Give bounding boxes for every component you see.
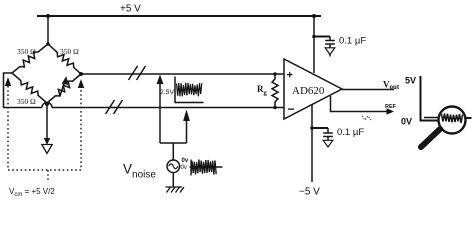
source noise waveform (190, 166, 223, 168)
svg-text:0v: 0v (182, 158, 189, 164)
magnifier handle (421, 129, 440, 147)
svg-text:+5 V: +5 V (120, 4, 141, 15)
-5V supply wire from op-amp (311, 105, 313, 183)
stem from bridge bottom vertex (46, 104, 48, 140)
wire from left vertex down and right (- output) (4, 73, 43, 108)
svg-text:0.1 µF: 0.1 µF (339, 36, 366, 47)
upper signal wire from right vertex to amplifier + input (81, 73, 284, 75)
wire hop over centre stem (42, 103, 52, 108)
svg-text:350 Ω: 350 Ω (17, 47, 36, 56)
Vcm common open triangle (42, 145, 52, 154)
node Rg top (273, 72, 277, 76)
output wire (342, 89, 394, 91)
resistor R1 350 ohm (top-left bridge arm) (12, 44, 48, 73)
ground for C2 (323, 140, 333, 147)
svg-text:AD620: AD620 (292, 85, 325, 97)
svg-text:−5 V: −5 V (299, 187, 320, 198)
svg-text:REF: REF (385, 104, 397, 110)
+5V supply wire into op-amp (313, 16, 315, 73)
small dotted scribble near REF (362, 116, 371, 120)
dashed enclosure bottom edge (8, 169, 81, 171)
svg-text:+: + (287, 70, 293, 82)
resistor R3 350 ohm (bottom-left bridge arm) (12, 73, 47, 103)
gain resistor Rg (272, 76, 278, 105)
capacitor C1 0.1uF (325, 37, 335, 48)
junction to bottom bypass cap (310, 126, 314, 130)
2.5V noise graph axes (175, 77, 204, 103)
dashed sense arrow right (78, 79, 84, 88)
noise waveform on 2.5V level (177, 83, 202, 97)
node Rg bottom (273, 106, 277, 110)
noise injection arrow into lower wire (186, 119, 188, 143)
resistor R2 350 ohm (top-right bridge arm) (48, 44, 81, 74)
svg-text:0.1 µF: 0.1 µF (337, 127, 364, 138)
wire rail to bridge top (47, 16, 49, 44)
junction to top bypass cap (312, 35, 316, 39)
axis stub right of lens (466, 117, 472, 119)
ground (hatched) (166, 187, 185, 193)
scope axes (421, 76, 439, 121)
lower signal wire to amplifier - input (52, 107, 284, 109)
+5V supply rail (37, 15, 321, 17)
junction on rail at bridge drop (46, 14, 50, 18)
node: bridge top vertex (46, 42, 50, 46)
node: bridge right vertex (+ output) (79, 72, 83, 76)
node: bridge bottom vertex (45, 102, 49, 106)
dashed sense arrow left (5, 77, 11, 86)
magnifier lens (439, 107, 466, 134)
variable-resistor arrow on R4 (60, 80, 65, 96)
noise injection arrow into upper wire (159, 82, 161, 143)
capacitor C2 0.1uF (323, 128, 333, 140)
svg-text:5V: 5V (405, 76, 416, 86)
svg-text:350 Ω: 350 Ω (17, 97, 36, 106)
cable-break slashes on lower wire (106, 100, 115, 114)
svg-text:350 Ω: 350 Ω (60, 47, 79, 56)
svg-text:0v: 0v (181, 165, 187, 171)
waveform inside lens (442, 114, 463, 123)
wire source to ground (172, 173, 174, 187)
ground for C1 (325, 48, 335, 55)
svg-text:−: − (288, 102, 295, 116)
REF wire (331, 96, 389, 112)
connector joining both arrows (160, 143, 187, 161)
Vnoise AC source (167, 160, 180, 173)
dashed stub to Vcm label (47, 170, 49, 182)
op-amp U1 AD620 (284, 59, 342, 119)
cable-break slashes on upper wire (129, 66, 138, 80)
svg-text:0V: 0V (401, 117, 412, 127)
junction on rail at AD620 supply (312, 14, 316, 18)
svg-text:2.5V: 2.5V (160, 89, 174, 96)
resistor R4 variable strain-gauge arm (47, 74, 81, 103)
